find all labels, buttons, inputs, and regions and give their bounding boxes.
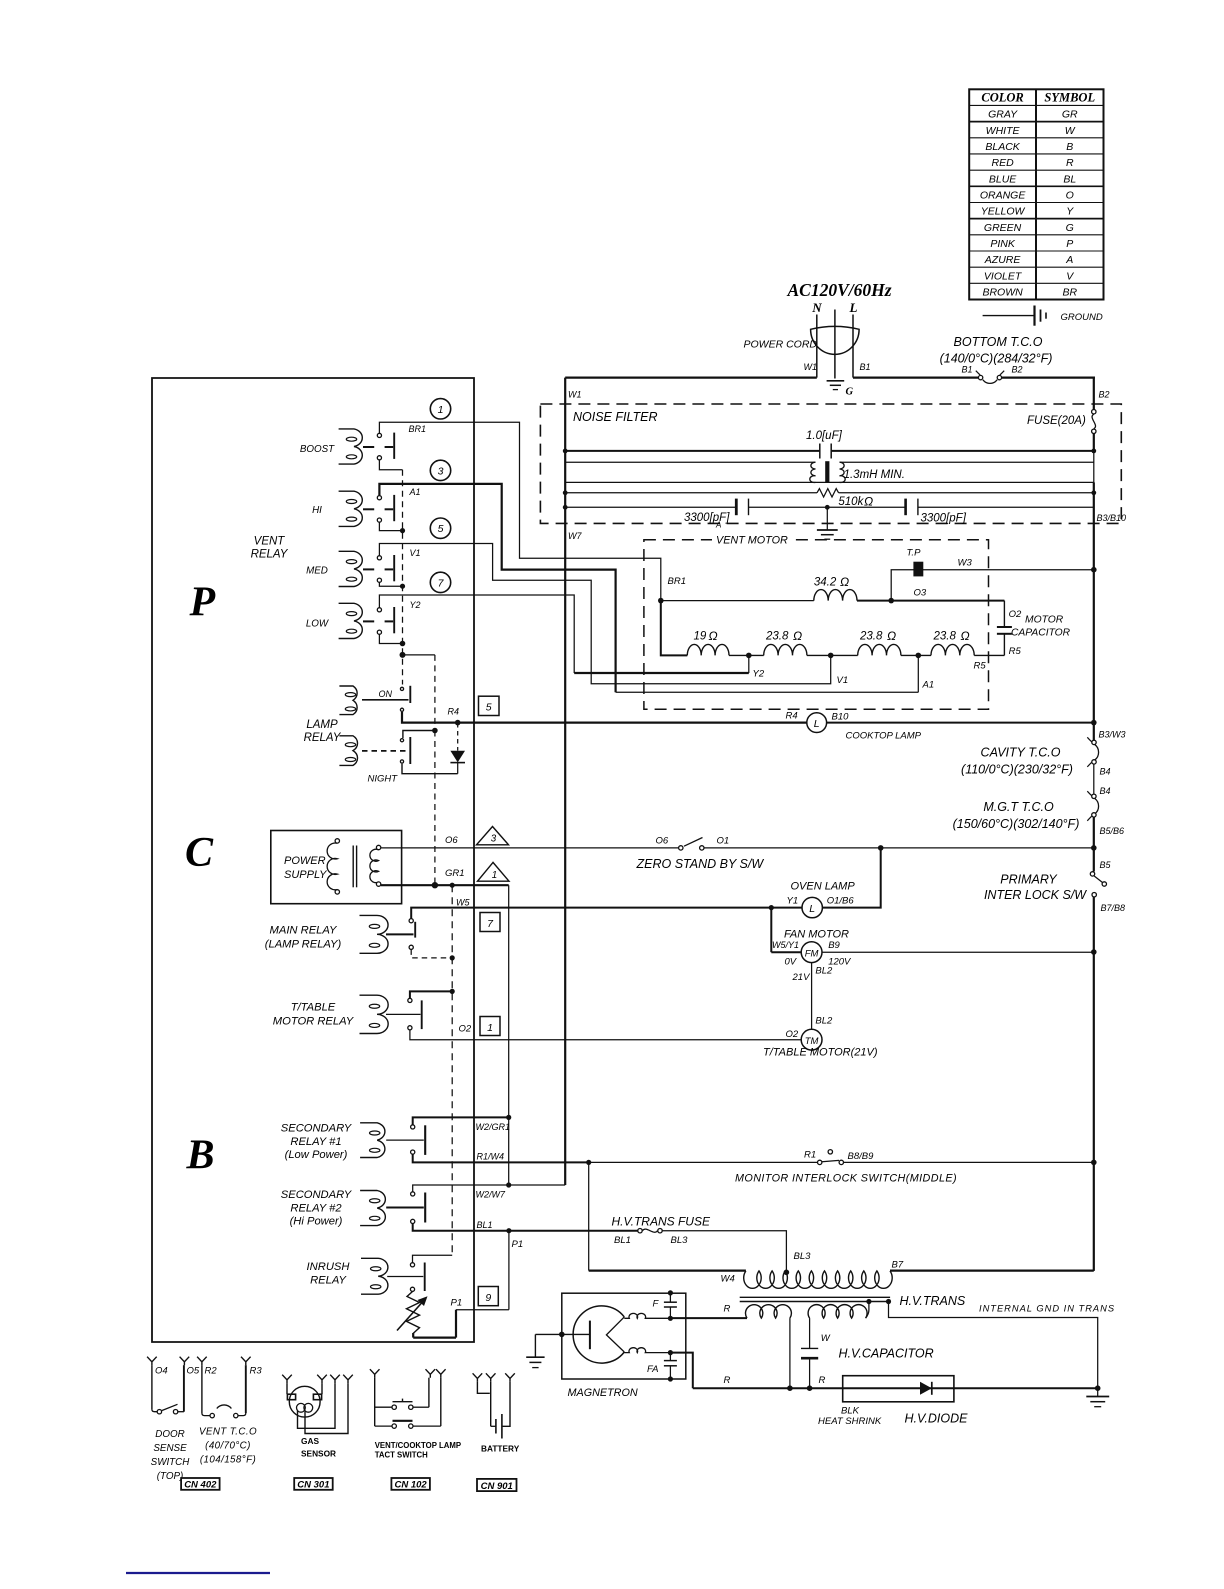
connector pin box 7 <box>480 913 500 932</box>
connector pin circle 1 <box>430 399 450 419</box>
svg-text:Y2: Y2 <box>410 600 421 610</box>
noise filter dashed box <box>540 390 1126 542</box>
svg-text:GR1: GR1 <box>445 868 465 879</box>
svg-text:W2/GR1: W2/GR1 <box>476 1122 511 1132</box>
right bus B7/B8 segment <box>1093 897 1095 1271</box>
svg-text:MAGNETRON: MAGNETRON <box>568 1387 638 1399</box>
svg-text:B4: B4 <box>1100 767 1111 777</box>
svg-text:O2: O2 <box>786 1029 799 1040</box>
svg-text:3: 3 <box>491 834 497 845</box>
right bus B3/B10 segment <box>1093 482 1095 740</box>
svg-text:MAIN RELAY: MAIN RELAY <box>270 925 338 937</box>
wire A1 (hi to vent motor) <box>379 484 615 692</box>
svg-text:G: G <box>1066 222 1074 234</box>
wire O6 (zero standby line) <box>381 847 678 849</box>
svg-text:RELAY: RELAY <box>251 549 289 561</box>
svg-text:R: R <box>724 1304 731 1315</box>
svg-text:BL3: BL3 <box>671 1235 689 1246</box>
svg-text:R: R <box>819 1375 826 1386</box>
wire R1/W4 <box>413 1154 589 1162</box>
svg-text:W4: W4 <box>721 1274 735 1285</box>
svg-text:HEAT SHRINK: HEAT SHRINK <box>818 1416 882 1427</box>
wire W1/W7 vertical bus <box>564 378 566 1185</box>
HV transformer primary coil <box>744 1271 892 1288</box>
lamp relay ON contacts <box>400 687 403 690</box>
diode D1 (lamp relay) <box>450 723 465 774</box>
wire W2/GR1 <box>413 1117 509 1124</box>
svg-text:BL2: BL2 <box>815 966 833 977</box>
svg-text:BLACK: BLACK <box>985 141 1020 153</box>
svg-text:CN 301: CN 301 <box>297 1480 329 1491</box>
wire BL3 to transformer tap <box>663 1231 787 1272</box>
svg-text:Ω: Ω <box>961 629 970 643</box>
connector pin box 5 <box>479 696 500 715</box>
svg-text:21V: 21V <box>792 972 812 983</box>
svg-text:V: V <box>1066 270 1074 282</box>
svg-text:O4: O4 <box>155 1365 168 1376</box>
vent motor winding 34.2 ohm <box>661 600 814 602</box>
connector triangle 3 <box>477 827 509 845</box>
svg-text:BR1: BR1 <box>409 424 427 434</box>
svg-text:(104/158°F): (104/158°F) <box>200 1455 256 1466</box>
svg-text:R4: R4 <box>448 707 460 717</box>
svg-text:BL2: BL2 <box>815 1015 833 1026</box>
svg-text:O1: O1 <box>717 836 730 847</box>
svg-text:1.0[uF]: 1.0[uF] <box>806 430 843 442</box>
svg-text:P: P <box>1066 238 1073 250</box>
svg-text:FM: FM <box>805 949 819 960</box>
wire oven lamp branch <box>822 848 880 908</box>
svg-text:W5/Y1: W5/Y1 <box>772 940 799 950</box>
svg-text:BATTERY: BATTERY <box>481 1444 520 1454</box>
svg-text:P: P <box>189 580 216 626</box>
svg-text:Y: Y <box>1066 206 1074 218</box>
vent motor winding 23.8 ohm #3 <box>931 644 974 655</box>
svg-text:H.V.TRANS: H.V.TRANS <box>900 1294 966 1308</box>
vent motor winding 23.8 ohm #1 <box>764 644 807 655</box>
svg-text:O6: O6 <box>656 836 669 847</box>
svg-text:SWITCH: SWITCH <box>151 1457 191 1468</box>
magnetron cathode lead + ground <box>526 1332 590 1368</box>
svg-text:O: O <box>1066 190 1074 202</box>
relay SECONDARY #2 (hi power) <box>360 1191 385 1226</box>
svg-text:GROUND: GROUND <box>1061 312 1103 323</box>
svg-text:R3: R3 <box>250 1365 263 1376</box>
connector CN 402 <box>181 1478 220 1490</box>
svg-text:9: 9 <box>485 1292 491 1304</box>
svg-text:OVEN LAMP: OVEN LAMP <box>791 881 856 893</box>
svg-text:R: R <box>724 1375 731 1386</box>
connector pin circle 5 <box>430 518 450 538</box>
svg-text:FA: FA <box>647 1364 658 1375</box>
vent motor node A1 <box>916 653 922 659</box>
wire B1 to bottom TCO <box>853 377 978 379</box>
wire R4 cooktop lamp line <box>402 712 807 723</box>
wire W5/Y1 drop to fan motor <box>770 908 772 953</box>
svg-text:1: 1 <box>487 1022 493 1034</box>
HV transformer filament secondary <box>673 1317 748 1319</box>
wire internal ground in trans <box>886 1299 1115 1388</box>
wire BL1 <box>413 1224 638 1231</box>
dashed wire W5 vertical <box>451 885 453 1255</box>
svg-text:W2/W7: W2/W7 <box>476 1189 506 1199</box>
connector pin box 1 <box>480 1017 500 1036</box>
svg-text:O2: O2 <box>1009 609 1022 620</box>
wire B2 to right bus corner <box>1002 377 1095 379</box>
svg-text:P1: P1 <box>451 1298 463 1309</box>
svg-text:1: 1 <box>492 870 497 881</box>
wire P1 <box>413 1231 509 1338</box>
svg-text:T/TABLE MOTOR(21V): T/TABLE MOTOR(21V) <box>763 1047 878 1059</box>
svg-text:R2: R2 <box>205 1365 218 1376</box>
relay MAIN (lamp relay) <box>360 915 389 953</box>
gas sensor group <box>282 1375 353 1459</box>
relay HI (vent) <box>312 491 394 526</box>
resistor 510k <box>563 489 1096 509</box>
wire magnetron F to transformer <box>673 1317 748 1319</box>
wire main relay to W5 dashed <box>411 949 452 958</box>
svg-text:0V: 0V <box>785 957 798 968</box>
svg-text:GREEN: GREEN <box>984 222 1022 234</box>
svg-text:B1: B1 <box>860 362 871 372</box>
wire GR1 vertical drop <box>508 885 510 1185</box>
svg-text:R1: R1 <box>804 1150 816 1161</box>
svg-text:H.V.CAPACITOR: H.V.CAPACITOR <box>839 1347 934 1361</box>
svg-text:LOW: LOW <box>306 619 330 630</box>
inductor 1.3mH choke line <box>565 451 1094 483</box>
connector CN 301 <box>294 1478 333 1490</box>
wire BR1 (boost to vent motor) <box>379 422 660 600</box>
svg-text:N: N <box>811 300 822 315</box>
svg-text:B2: B2 <box>1012 364 1023 374</box>
svg-text:R: R <box>1066 157 1074 169</box>
svg-text:CN 402: CN 402 <box>184 1480 217 1491</box>
svg-text:P1: P1 <box>512 1239 524 1250</box>
svg-text:INTER LOCK S/W: INTER LOCK S/W <box>984 888 1087 902</box>
relay SECONDARY #1 (low power) <box>360 1123 385 1158</box>
svg-text:O1/B6: O1/B6 <box>827 895 855 906</box>
svg-text:FUSE(20A): FUSE(20A) <box>1027 415 1086 427</box>
tact switch group <box>370 1369 461 1459</box>
relay LOW (vent) <box>306 603 394 638</box>
svg-text:INTERNAL GND IN TRANS: INTERNAL GND IN TRANS <box>979 1304 1115 1314</box>
svg-text:RELAY #2: RELAY #2 <box>290 1202 342 1214</box>
wire O1 to bus <box>704 847 1093 849</box>
magnetron filament FA lead <box>624 1348 673 1375</box>
thermal protector T.P <box>891 548 1096 601</box>
svg-text:O2: O2 <box>459 1024 472 1035</box>
connector pin circle 7 <box>430 572 450 592</box>
noise filter line C <box>565 481 1094 483</box>
wire W4 <box>588 1162 590 1270</box>
thermal cutout bottom T.C.O <box>940 335 1053 383</box>
svg-text:BR: BR <box>1062 287 1077 299</box>
svg-text:NIGHT: NIGHT <box>368 774 399 785</box>
svg-text:L: L <box>814 718 820 730</box>
svg-text:5: 5 <box>438 523 444 535</box>
svg-text:B2: B2 <box>1099 390 1110 400</box>
svg-text:O3: O3 <box>914 588 927 599</box>
svg-text:3: 3 <box>438 465 444 477</box>
capacitor 1.0uF line <box>563 430 1096 459</box>
svg-text:23.8: 23.8 <box>933 631 957 643</box>
wire NIGHT switch bracket <box>403 731 435 739</box>
svg-text:R1/W4: R1/W4 <box>477 1152 505 1162</box>
svg-text:C: C <box>185 830 214 876</box>
svg-text:SENSE: SENSE <box>153 1443 187 1454</box>
svg-text:23.8: 23.8 <box>765 631 789 643</box>
svg-text:WHITE: WHITE <box>986 125 1021 137</box>
svg-text:5: 5 <box>486 702 492 714</box>
primary interlock switch <box>984 872 1125 913</box>
svg-text:Ω: Ω <box>709 629 718 643</box>
svg-text:VENT MOTOR: VENT MOTOR <box>716 535 788 547</box>
svg-text:B: B <box>1066 141 1073 153</box>
svg-text:Ω: Ω <box>840 575 849 589</box>
svg-text:FAN MOTOR: FAN MOTOR <box>784 929 849 941</box>
wire inrush top to W5 <box>413 1255 453 1262</box>
svg-text:BOTTOM T.C.O: BOTTOM T.C.O <box>954 335 1043 349</box>
svg-text:RED: RED <box>992 157 1015 169</box>
svg-text:W1: W1 <box>568 390 582 400</box>
svg-text:A: A <box>1065 254 1073 266</box>
svg-text:3300[pF]: 3300[pF] <box>921 513 967 525</box>
svg-text:(Hi Power): (Hi Power) <box>290 1216 343 1228</box>
svg-text:POWER CORD: POWER CORD <box>744 339 818 351</box>
wire B7 <box>890 1269 1094 1271</box>
svg-text:B9: B9 <box>828 940 840 951</box>
svg-text:B5: B5 <box>1100 860 1112 870</box>
connector pin box 9 <box>478 1287 498 1306</box>
connector triangle 1 <box>478 862 510 881</box>
right bus B5/B6 segment <box>1093 817 1095 871</box>
svg-text:GAS: GAS <box>301 1436 319 1446</box>
capacitor 3300pF right <box>749 499 1094 525</box>
svg-text:VENT: VENT <box>254 536 286 548</box>
wire V1 (med to vent motor) <box>379 544 830 684</box>
wire magnetron FA to R line <box>673 1353 693 1389</box>
svg-text:B3/B10: B3/B10 <box>1097 513 1127 523</box>
svg-text:RELAY: RELAY <box>304 732 342 744</box>
svg-text:W3: W3 <box>958 558 973 569</box>
wire W1 top line <box>565 377 817 379</box>
svg-text:A1: A1 <box>922 680 935 691</box>
svg-text:R4: R4 <box>786 711 798 722</box>
ground at noise filter <box>817 507 838 539</box>
svg-text:B: B <box>186 1133 215 1179</box>
svg-text:(150/60°C)(302/140°F): (150/60°C)(302/140°F) <box>953 817 1080 831</box>
connector CN 901 <box>477 1479 517 1491</box>
svg-text:CAVITY T.C.O: CAVITY T.C.O <box>981 746 1061 760</box>
svg-text:YELLOW: YELLOW <box>981 206 1026 218</box>
svg-text:ORANGE: ORANGE <box>980 190 1027 202</box>
svg-text:TM: TM <box>805 1036 819 1047</box>
svg-text:POWER: POWER <box>284 855 326 867</box>
svg-text:VENT T.C.O: VENT T.C.O <box>199 1427 257 1438</box>
door sense switch group <box>147 1357 200 1482</box>
svg-text:L: L <box>849 300 858 315</box>
relay INRUSH <box>361 1258 388 1294</box>
svg-text:MONITOR INTERLOCK SWITCH(MIDDL: MONITOR INTERLOCK SWITCH(MIDDLE) <box>735 1173 957 1185</box>
chassis ground legend symbol <box>983 306 1103 326</box>
svg-text:O6: O6 <box>445 835 458 846</box>
magnetron filament F lead <box>624 1299 673 1321</box>
switch MONITOR INTERLOCK (middle) <box>735 1150 957 1185</box>
svg-text:CN 102: CN 102 <box>394 1480 427 1491</box>
svg-text:R5: R5 <box>974 661 987 672</box>
svg-text:CN 901: CN 901 <box>481 1481 513 1492</box>
svg-text:BLK: BLK <box>841 1406 860 1417</box>
magnetron F feedthrough capacitor <box>664 1290 677 1318</box>
svg-text:1.3mH MIN.: 1.3mH MIN. <box>844 469 905 481</box>
svg-text:LAMP: LAMP <box>306 719 338 731</box>
color code legend table <box>969 89 1103 299</box>
power cord plug P1 <box>744 300 871 378</box>
svg-text:W1: W1 <box>804 362 818 372</box>
svg-text:V1: V1 <box>837 675 849 686</box>
HV diode <box>818 1376 968 1427</box>
svg-text:ZERO STAND BY S/W: ZERO STAND BY S/W <box>636 857 765 871</box>
connector CN 102 <box>391 1478 430 1490</box>
svg-text:SYMBOL: SYMBOL <box>1044 91 1095 105</box>
vent TCO group <box>197 1357 262 1466</box>
thermal cutout CAVITY T.C.O <box>961 737 1110 776</box>
svg-text:B7: B7 <box>892 1260 904 1271</box>
svg-text:A: A <box>715 521 721 530</box>
vent motor node Y2 <box>746 653 752 659</box>
wire B9 fan motor to bus <box>822 951 1094 953</box>
svg-text:(Low Power): (Low Power) <box>285 1149 348 1161</box>
svg-text:SECONDARY: SECONDARY <box>281 1123 353 1135</box>
svg-text:B5/B6: B5/B6 <box>1100 826 1125 836</box>
svg-text:V1: V1 <box>410 548 421 558</box>
svg-text:BR1: BR1 <box>668 576 686 587</box>
svg-text:Y2: Y2 <box>753 669 765 680</box>
svg-text:BL: BL <box>1063 173 1076 185</box>
svg-text:CAPACITOR: CAPACITOR <box>1011 628 1071 639</box>
wire cooktop lamp to bus <box>827 722 1094 724</box>
svg-text:DOOR: DOOR <box>155 1429 184 1440</box>
svg-text:W: W <box>821 1333 831 1344</box>
svg-text:BLUE: BLUE <box>989 173 1017 185</box>
relay LAMP ON coil <box>339 686 357 715</box>
PCB outline box <box>152 378 474 1342</box>
svg-text:B1: B1 <box>962 364 973 374</box>
wire t/table relay top <box>410 991 452 998</box>
svg-text:HI: HI <box>312 505 322 516</box>
relay LAMP NIGHT coil <box>339 736 357 766</box>
battery group <box>473 1373 520 1453</box>
svg-text:O5: O5 <box>187 1365 200 1376</box>
svg-text:PINK: PINK <box>990 238 1016 250</box>
vent motor node V1 <box>828 653 834 659</box>
svg-text:(TOP): (TOP) <box>157 1471 184 1482</box>
blue footer line <box>126 1572 270 1574</box>
relay MED (vent) <box>306 551 394 586</box>
varistor (inrush) <box>397 1292 428 1334</box>
svg-text:Ω: Ω <box>793 629 802 643</box>
connector pin circle 3 <box>430 460 450 480</box>
svg-text:BOOST: BOOST <box>300 444 335 455</box>
svg-text:M.G.T T.C.O: M.G.T T.C.O <box>983 800 1054 814</box>
svg-text:COOKTOP LAMP: COOKTOP LAMP <box>846 731 922 742</box>
fan motor FM <box>771 929 852 984</box>
svg-text:510k: 510k <box>838 496 864 508</box>
HV transformer secondary winding <box>809 1318 811 1348</box>
svg-text:R5: R5 <box>1009 646 1022 657</box>
svg-text:T.P: T.P <box>907 548 922 559</box>
lamp relay NIGHT contacts <box>400 739 403 742</box>
svg-text:B3/W3: B3/W3 <box>1099 730 1126 740</box>
wire B4 bus segment <box>1093 764 1095 794</box>
svg-text:MOTOR RELAY: MOTOR RELAY <box>273 1015 355 1027</box>
svg-text:3300[pF]: 3300[pF] <box>684 512 730 524</box>
wire GR1 <box>381 884 509 886</box>
svg-text:SENSOR: SENSOR <box>301 1449 336 1459</box>
svg-text:A1: A1 <box>409 487 421 497</box>
wire lamp relay branch (dashed vertical) <box>403 655 439 889</box>
svg-text:SUPPLY: SUPPLY <box>284 869 327 881</box>
wire R high voltage line <box>693 1387 1098 1389</box>
svg-text:AZURE: AZURE <box>984 254 1022 266</box>
ground G at power cord <box>827 381 854 398</box>
svg-text:COLOR: COLOR <box>981 91 1023 105</box>
HV capacitor W <box>801 1333 934 1388</box>
svg-text:B4: B4 <box>1100 786 1111 796</box>
svg-text:(40/70°C): (40/70°C) <box>205 1441 251 1452</box>
fuse H.V.TRANS FUSE <box>612 1215 711 1247</box>
cooktop lamp <box>786 711 922 742</box>
svg-text:VIOLET: VIOLET <box>984 270 1023 282</box>
relay BOOST (vent) <box>300 429 394 464</box>
vent motor winding 23.8 ohm #2 <box>858 644 901 655</box>
svg-text:B7/B8: B7/B8 <box>1101 903 1126 913</box>
wire W5 oven lamp line <box>411 908 802 919</box>
relay T/TABLE MOTOR <box>360 995 389 1033</box>
svg-text:SECONDARY: SECONDARY <box>281 1189 353 1201</box>
thermal cutout M.G.T T.C.O <box>953 791 1124 836</box>
magnetron FA feedthrough capacitor <box>664 1353 677 1382</box>
wire O2 to turntable motor <box>410 1030 802 1040</box>
svg-text:PRIMARY: PRIMARY <box>1000 873 1058 887</box>
svg-text:Ω: Ω <box>864 495 873 509</box>
svg-text:1: 1 <box>438 404 444 416</box>
vent motor dashed box <box>644 540 989 710</box>
capacitor 3300pF left <box>563 499 749 530</box>
motor capacitor O2 <box>974 601 1071 672</box>
svg-text:H.V.TRANS FUSE: H.V.TRANS FUSE <box>612 1215 711 1229</box>
svg-text:T/TABLE: T/TABLE <box>291 1002 336 1014</box>
svg-text:G: G <box>846 387 854 398</box>
svg-text:(110/0°C)(230/32°F): (110/0°C)(230/32°F) <box>961 763 1073 777</box>
power supply transformer <box>327 839 381 894</box>
power supply box <box>271 831 402 904</box>
svg-text:B10: B10 <box>832 712 850 723</box>
svg-text:RELAY #1: RELAY #1 <box>290 1136 341 1148</box>
svg-text:ON: ON <box>379 689 393 699</box>
svg-text:BL1: BL1 <box>614 1235 631 1246</box>
HV transformer core <box>740 1296 890 1298</box>
svg-text:AC120V/60Hz: AC120V/60Hz <box>786 280 891 300</box>
svg-text:VENT/COOKTOP LAMP: VENT/COOKTOP LAMP <box>375 1441 461 1450</box>
svg-text:MED: MED <box>306 566 328 577</box>
wire W2/W7 <box>413 1185 566 1192</box>
wire BL2 <box>811 963 813 1030</box>
right bus B2 segment with fuse <box>1094 377 1110 451</box>
svg-text:Ω: Ω <box>887 629 896 643</box>
fuse FUSE(20A) <box>1027 410 1096 434</box>
svg-text:BL3: BL3 <box>794 1251 812 1262</box>
